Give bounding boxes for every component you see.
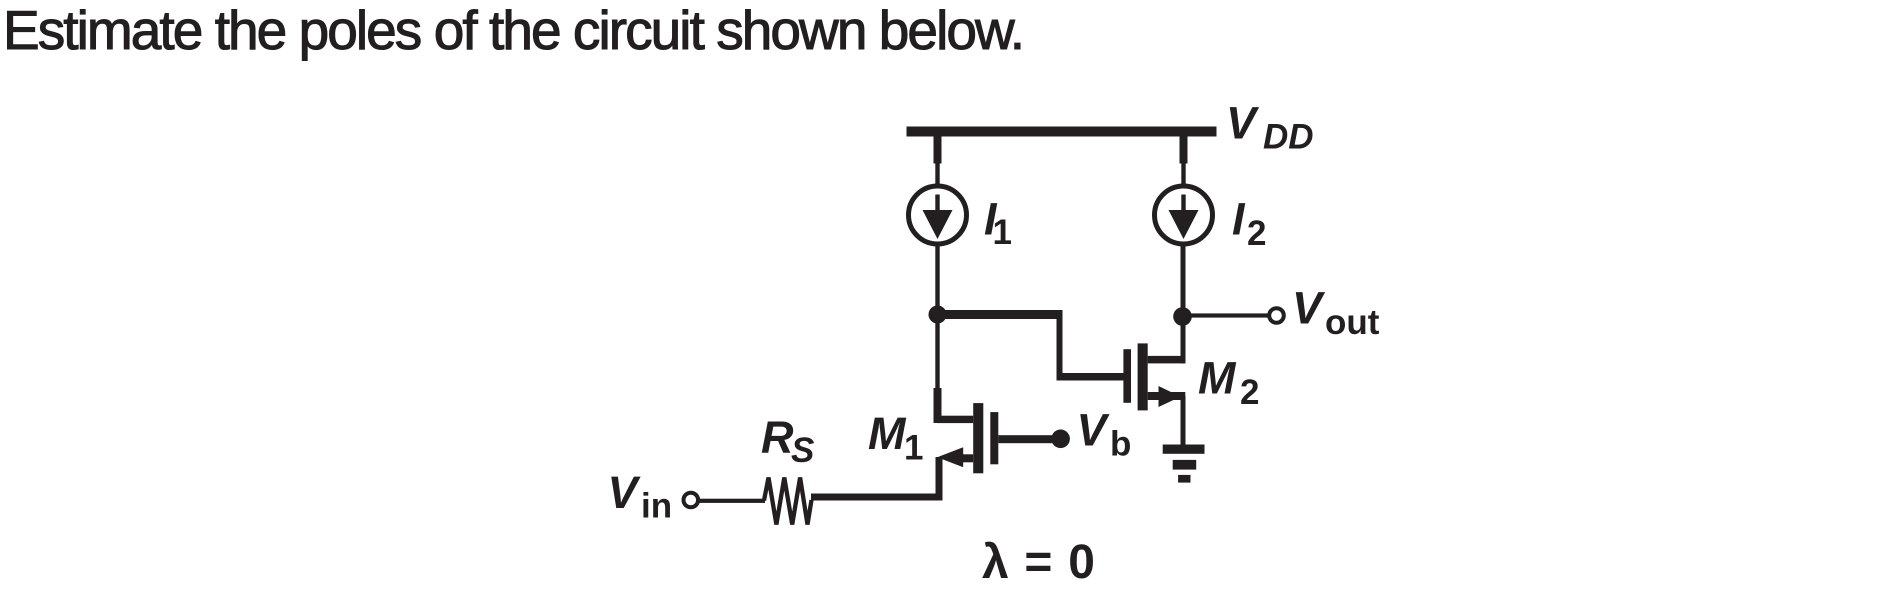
wire I1 to node A (935, 246, 939, 316)
wire VDD rail (907, 127, 1217, 137)
transistor M1 (937, 403, 1052, 473)
wire stub to I1 circle (935, 163, 939, 187)
wire VDD rail to I2 (thick stub) (1180, 137, 1188, 164)
svg-text:1: 1 (904, 429, 923, 468)
wire gate branch vertical (1057, 310, 1063, 377)
wire Vin terminal to resistor (699, 499, 765, 503)
transistor M2 (1123, 343, 1185, 410)
svg-text:R: R (761, 412, 794, 463)
svg-text:out: out (1325, 303, 1380, 342)
wire stub to I2 circle (1181, 163, 1185, 187)
svg-text:I: I (1232, 194, 1246, 245)
wire node A to gate branch (thick horizontal) (937, 310, 1063, 319)
wire VDD rail to I1 (thick stub) (934, 137, 942, 164)
svg-text:DD: DD (1263, 118, 1314, 157)
terminal Vout (open circle) (1269, 308, 1284, 323)
node A (junction dot) (929, 306, 947, 324)
wire node A down to M1 drain (935, 320, 939, 390)
svg-text:V: V (608, 467, 642, 518)
wire thick stub to M1 drain (934, 388, 942, 423)
terminal Vin (open circle) (684, 493, 699, 508)
svg-text:V: V (1292, 283, 1326, 334)
node B (junction dot) (1173, 307, 1192, 326)
svg-text:V: V (1226, 98, 1260, 149)
svg-text:b: b (1110, 425, 1131, 464)
svg-text:in: in (641, 487, 672, 526)
wire to M2 gate (1057, 373, 1124, 381)
wire M1 source to resistor RS (811, 494, 943, 501)
wire I2 to node B and M2 drain (1181, 246, 1186, 363)
wire node B to Vout terminal (1183, 313, 1269, 317)
svg-text:Estimate the poles of the circ: Estimate the poles of the circuit shown … (3, 0, 1023, 61)
svg-text:2: 2 (1240, 373, 1259, 412)
svg-text:2: 2 (1247, 214, 1266, 253)
svg-text:S: S (791, 431, 814, 470)
node Vb (dot) (1051, 430, 1070, 449)
svg-text:λ = 0: λ = 0 (982, 536, 1096, 589)
ground (1163, 445, 1205, 483)
current source I1 (909, 186, 967, 244)
current source I2 (1155, 186, 1213, 244)
svg-text:V: V (1077, 405, 1111, 456)
svg-text:1: 1 (993, 213, 1012, 252)
resistor RS (zigzag) (764, 478, 812, 525)
wire M1 source down (936, 457, 943, 501)
svg-text:M: M (868, 408, 907, 459)
svg-text:M: M (1198, 353, 1237, 404)
wire M2 source to ground (1181, 396, 1186, 446)
